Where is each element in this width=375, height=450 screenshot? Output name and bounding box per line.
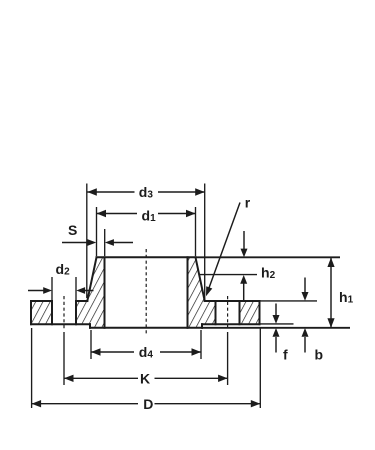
main center line [145,249,147,334]
dimension line d2 tails [28,290,94,292]
d2 extension left [51,277,53,300]
left bolt hole center line [63,296,65,331]
raised face step left [89,324,91,328]
face bottom extension right (h1/f/b bottom) [202,327,350,329]
flange outline [31,257,260,328]
d3 extension right [204,184,206,302]
plate bottom edge [31,323,260,325]
D arrows [32,400,41,407]
dimension line K [64,377,228,379]
d3 arrows [87,188,97,195]
raised face step right [201,324,203,328]
svg-text:b: b [315,347,324,363]
d2 extension right [75,277,77,300]
svg-text:r: r [245,195,251,211]
svg-text:S: S [68,222,77,238]
h2 arrow tails [243,231,245,301]
D extension left [31,328,33,408]
hatched cross-section: right outer plate segment [240,301,260,324]
d4 extension right [200,330,202,359]
dimension line d4 [91,351,201,353]
d1 arrows [97,210,107,217]
raised face bottom edge [90,327,202,329]
plate top edge segments [31,300,260,302]
hub outer wall left (tapered) [87,257,96,301]
hatched cross-section: left hub wall and plate segment [76,257,105,328]
svg-text:K: K [140,370,150,386]
r leader line [208,203,241,293]
D extension right [259,328,261,408]
dimension line h1 [330,258,332,328]
K extension left [63,332,65,385]
arrowheads [32,188,335,407]
bolt hole left edges [52,301,76,324]
d1 extension left [96,207,98,256]
f arrows (outside) [273,315,280,324]
K extension right [227,332,229,385]
d1 extension right [195,207,197,256]
hub top edge [97,256,196,258]
dimension line d1 [97,213,196,215]
S arrows (outside) [87,239,96,246]
d2 arrows (outside) [43,287,52,294]
bolt hole right edges [216,301,240,324]
hub top reference line A (h1/h2 top) [196,256,341,258]
plate right end [259,301,261,324]
d4 extension left [90,330,92,359]
bore wall right [187,257,189,328]
r leader arrowhead [206,286,212,296]
hatched cross-section: left outer plate segment [31,301,52,324]
d3 extension left [86,184,88,299]
bore wall left [104,257,106,328]
dimension line D [32,403,261,405]
h1 arrows [327,258,334,268]
plate left end [30,301,32,324]
center lines (dashed) [64,249,228,334]
hub outer wall right (tapered) [196,257,205,301]
S right extension [104,229,106,256]
extension and reference lines [32,184,350,409]
right bolt hole center line [227,296,229,331]
h2 reference line B [199,274,257,276]
dimension lines [28,192,331,404]
f arrow tails [275,304,277,353]
svg-text:D: D [143,396,153,412]
d4 arrows [91,348,101,355]
hatched cross-section: right hub wall and plate segment [188,257,216,328]
b arrow tails [304,278,306,353]
svg-text:f: f [283,347,288,363]
K arrows [64,375,74,382]
b arrows (outside) [302,292,309,301]
plate bottom extension right (f top) [260,323,294,325]
dimension line d3 [87,191,204,193]
h2 arrows (outside) [240,275,247,284]
plate top extension right (b top) [260,300,318,302]
dimension line S tails [62,242,133,244]
